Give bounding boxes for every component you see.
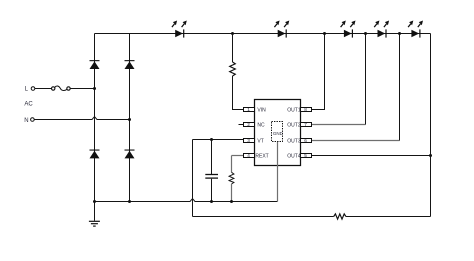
svg-text:4: 4 — [247, 153, 250, 158]
diode D2 — [125, 60, 135, 69]
fuse F1 — [52, 87, 55, 90]
junction REXT-ground — [230, 200, 233, 203]
diode D3 — [90, 150, 100, 159]
wire VT vertical — [192, 140, 194, 217]
GND pad — [272, 122, 283, 142]
svg-text:NC: NC — [257, 122, 265, 128]
junction L-bridge — [93, 87, 96, 90]
svg-text:AC: AC — [24, 102, 33, 108]
svg-text:6: 6 — [304, 138, 307, 143]
capacitor C1 — [211, 140, 213, 175]
junction OUT1 rail — [323, 32, 326, 35]
pin 6 box — [301, 139, 312, 143]
junction VIN branch — [231, 32, 234, 35]
terminal N — [31, 118, 35, 122]
junction N-bridge — [128, 118, 131, 121]
LED5 — [408, 21, 423, 38]
wire GND pad drop — [277, 142, 279, 202]
wire REXT horizontal — [232, 155, 244, 157]
pin 7 box — [301, 123, 312, 127]
junction ground rail left — [93, 200, 96, 203]
pin 1 box — [244, 108, 255, 112]
wire OUT3 riser — [399, 34, 401, 141]
wire NC stub — [239, 124, 244, 126]
wire bridge left column — [94, 34, 96, 202]
wire top rail from bridge to OUT4 drop — [95, 33, 431, 35]
svg-text:OUT1: OUT1 — [287, 107, 301, 113]
resistor R2 — [229, 172, 234, 184]
resistor R1 — [230, 62, 236, 76]
wire REXT vertical lower — [231, 184, 233, 202]
svg-text:OUT4: OUT4 — [287, 153, 301, 159]
pin 5 box — [301, 154, 312, 158]
diode D1 — [90, 60, 100, 69]
junction VT-cap — [210, 138, 213, 141]
svg-text:VT: VT — [257, 138, 263, 144]
ground — [89, 221, 100, 226]
LED1 — [172, 21, 187, 38]
wire fuse to bridge — [70, 88, 94, 90]
LED3 — [341, 21, 356, 38]
svg-text:8: 8 — [304, 107, 307, 112]
svg-text:VIN: VIN — [257, 107, 266, 113]
wire bottom return left — [193, 216, 334, 218]
junction OUT2 rail — [364, 32, 367, 35]
junction cap-ground — [210, 200, 213, 203]
svg-text:2: 2 — [247, 122, 250, 127]
wire ground stub — [94, 202, 96, 221]
wire OUT2 riser — [365, 34, 367, 125]
LED4 — [374, 21, 389, 38]
svg-text:5: 5 — [304, 153, 307, 158]
LED2 — [274, 21, 289, 38]
svg-text:1: 1 — [247, 107, 250, 112]
wire REXT vertical upper — [231, 156, 233, 173]
resistor R3 — [334, 214, 346, 219]
wire L to fuse — [35, 88, 52, 90]
pin 2 box — [244, 123, 255, 127]
svg-text:GND: GND — [273, 131, 284, 136]
wire bridge right column — [129, 34, 131, 202]
op-amp U1 body — [255, 100, 301, 166]
junction OUT3 rail — [398, 32, 401, 35]
pin 8 box — [301, 108, 312, 112]
svg-text:N: N — [24, 118, 28, 124]
junction OUT4 — [429, 154, 432, 157]
svg-text:7: 7 — [304, 122, 307, 127]
pin 3 box — [244, 139, 255, 143]
junction bridge right bottom — [128, 200, 131, 203]
svg-text:3: 3 — [247, 138, 250, 143]
pin 4 box — [244, 154, 255, 158]
wire right drop — [430, 34, 432, 217]
wire N to bridge with hop — [34, 117, 129, 120]
wire OUT3 — [311, 140, 400, 142]
wire VIN drop upper — [232, 34, 234, 63]
wire VIN drop lower — [233, 76, 244, 110]
wire bottom return right — [346, 216, 431, 218]
terminal L — [31, 87, 35, 91]
svg-text:REXT: REXT — [255, 153, 268, 159]
wire OUT4 — [311, 155, 431, 157]
wire OUT1 — [311, 34, 325, 110]
wire OUT2 — [311, 124, 366, 126]
wire ground rail — [95, 199, 278, 202]
wire VT horizontal — [193, 139, 244, 141]
svg-text:OUT3: OUT3 — [287, 138, 301, 144]
svg-text:OUT2: OUT2 — [287, 122, 301, 128]
diode D4 — [125, 150, 135, 159]
